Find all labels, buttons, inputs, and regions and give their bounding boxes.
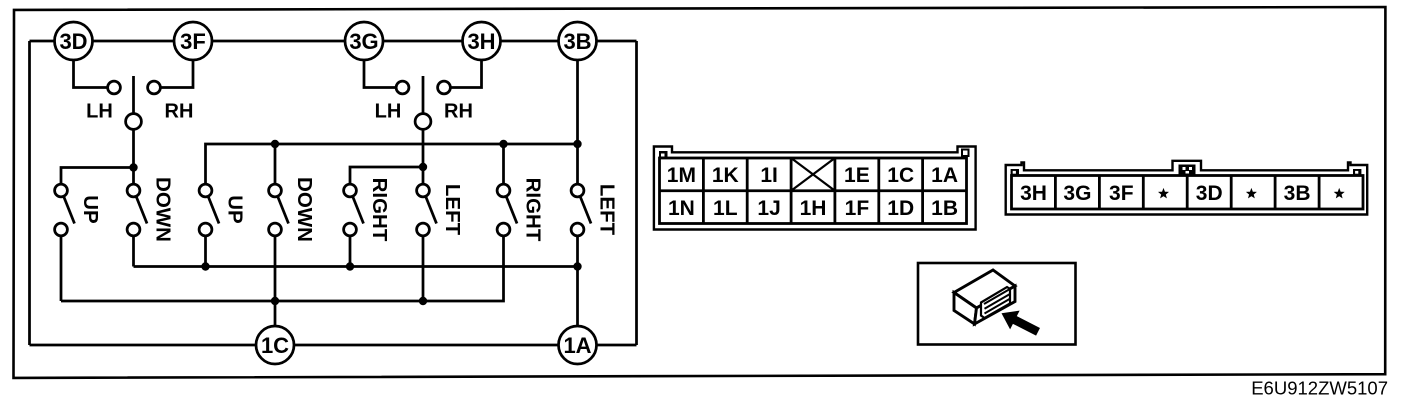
switch LEFT (571, 184, 591, 236)
junction rail B / DOWN2 (271, 297, 279, 305)
junction rail to DOWN (271, 140, 279, 148)
switch RIGHT (344, 184, 364, 236)
svg-text:LEFT: LEFT (441, 184, 464, 236)
wire UP2 down (204, 236, 207, 267)
wire rail to DOWN switch (274, 144, 277, 185)
svg-text:3H: 3H (1020, 182, 1047, 205)
switch DOWN (127, 184, 147, 236)
svg-text:UP: UP (224, 195, 247, 223)
wire branch to RIGHT switch (350, 167, 423, 185)
junction rail A / RIGHT1 (346, 262, 354, 270)
wire S2 pole to LEFT switch (422, 167, 425, 185)
wire rail to RIGHT switch (502, 144, 505, 185)
node 3H (463, 22, 501, 60)
node 3D (55, 22, 93, 60)
svg-text:LH: LH (375, 101, 402, 123)
svg-text:3F: 3F (1109, 182, 1134, 205)
svg-text:RIGHT: RIGHT (522, 178, 545, 242)
wire S1 pole to DOWN switch (132, 168, 135, 185)
wire DOWN1 down to rail A (132, 236, 135, 267)
pin * (unused) (1248, 190, 1256, 197)
svg-text:E6U912ZW5107: E6U912ZW5107 (1251, 378, 1388, 399)
wire left side (28, 41, 31, 345)
svg-text:1A: 1A (931, 164, 958, 187)
junction rail to RIGHT (499, 140, 507, 148)
node 1C (256, 326, 294, 364)
svg-text:1I: 1I (760, 164, 778, 187)
wire UP1 down to rail B (60, 236, 63, 301)
svg-text:1K: 1K (712, 164, 739, 187)
svg-text:RIGHT: RIGHT (368, 178, 391, 242)
junction rail A / LEFT2 (573, 262, 581, 270)
connector C2 body (1006, 161, 1367, 215)
svg-text:3D: 3D (59, 29, 87, 54)
svg-text:1F: 1F (845, 197, 870, 220)
svg-text:1A: 1A (563, 333, 591, 358)
control unit icon (918, 263, 1076, 345)
wire right side (635, 41, 638, 345)
svg-text:UP: UP (79, 195, 102, 223)
svg-text:3B: 3B (1284, 182, 1311, 205)
wire LEFT1 down (422, 236, 425, 301)
svg-text:1D: 1D (887, 197, 914, 220)
wire 3B down to LEFT switch (576, 60, 579, 185)
svg-text:DOWN: DOWN (293, 177, 316, 242)
node 1A (559, 326, 597, 364)
svg-text:1B: 1B (931, 197, 958, 220)
svg-text:1M: 1M (667, 164, 696, 187)
junction S2 pole (419, 163, 427, 171)
switch UP (55, 184, 75, 236)
switch RIGHT (497, 184, 517, 236)
svg-text:1C: 1C (261, 333, 289, 358)
wire S2 pole down (422, 129, 425, 167)
svg-text:LH: LH (86, 101, 113, 123)
junction S1 pole (129, 163, 137, 171)
svg-text:LEFT: LEFT (596, 184, 619, 236)
wire branch to UP switch (61, 168, 134, 185)
switch LH/RH selector S2 (396, 76, 450, 129)
wire rail B (61, 236, 504, 301)
svg-text:3H: 3H (467, 29, 495, 54)
wire bottom rail to 1C and 1A (30, 344, 637, 347)
node 3G (345, 22, 383, 60)
wire S1 pole down (132, 129, 135, 168)
wire 3G to LH contact (364, 60, 396, 88)
svg-text:1C: 1C (887, 164, 914, 187)
wire 3D to LH contact (74, 60, 108, 88)
wire 3F to RH contact (160, 60, 193, 88)
junction rail to 3B (573, 140, 581, 148)
svg-text:3F: 3F (180, 29, 206, 54)
svg-text:RH: RH (165, 101, 194, 123)
node 3F (174, 22, 212, 60)
wire 3B common rail (206, 144, 578, 185)
switch LH/RH selector S1 (108, 76, 161, 129)
svg-text:3G: 3G (349, 29, 378, 54)
connector C1 body (654, 147, 976, 230)
wire DOWN2 down to 1C (274, 236, 277, 326)
svg-text:DOWN: DOWN (152, 177, 175, 242)
svg-text:1E: 1E (844, 164, 870, 187)
crossed-out pin (791, 158, 835, 191)
wire top supply rail (30, 40, 637, 43)
svg-text:1J: 1J (757, 197, 780, 220)
svg-text:1H: 1H (800, 197, 827, 220)
node 3B (559, 22, 597, 60)
svg-text:1L: 1L (713, 197, 738, 220)
pin * (unused) (1160, 190, 1168, 197)
svg-text:RH: RH (444, 101, 473, 123)
switch UP (199, 184, 219, 236)
switch DOWN (269, 184, 289, 236)
pin * (unused) (1335, 190, 1343, 197)
junction rail B / LEFT1 (419, 297, 427, 305)
junction rail A / UP2 (201, 262, 209, 270)
svg-text:3G: 3G (1063, 182, 1091, 205)
svg-text:1N: 1N (668, 197, 695, 220)
svg-text:3B: 3B (563, 29, 591, 54)
wire rail A (134, 265, 578, 268)
wire LEFT2 down to 1A (576, 236, 579, 326)
switch LEFT (417, 184, 437, 236)
wire RIGHT1 down (349, 236, 352, 267)
svg-text:3D: 3D (1196, 182, 1223, 205)
wire 3H to RH contact (450, 60, 481, 88)
